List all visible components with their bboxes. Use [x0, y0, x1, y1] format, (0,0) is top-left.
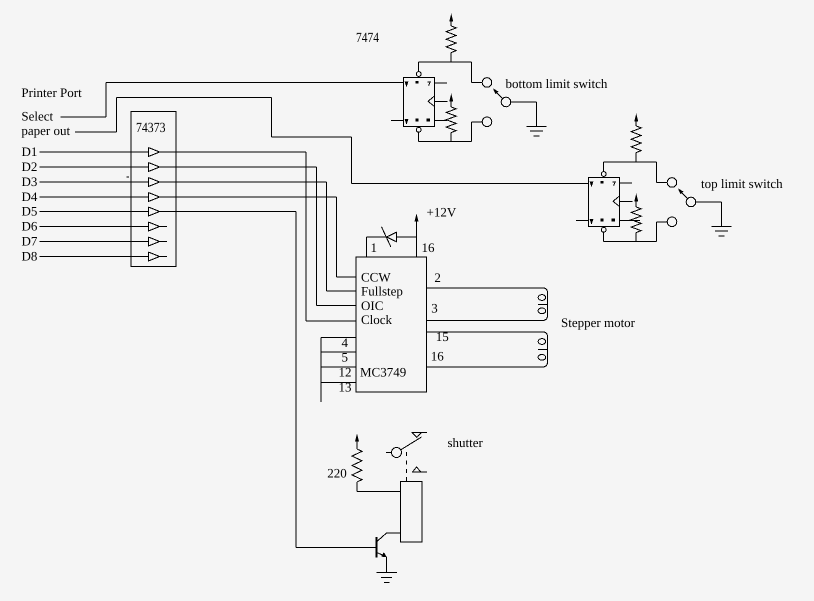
svg-text:shutter: shutter — [448, 435, 484, 450]
svg-text:74373: 74373 — [136, 121, 166, 136]
svg-text:16: 16 — [431, 349, 445, 364]
svg-text:MC3749: MC3749 — [360, 365, 406, 380]
svg-text:+12V: +12V — [427, 205, 457, 220]
svg-text:1: 1 — [371, 240, 378, 255]
svg-text:Stepper motor: Stepper motor — [561, 315, 636, 330]
svg-text:15: 15 — [436, 329, 449, 344]
svg-text:D2: D2 — [22, 159, 38, 174]
svg-text:Select: Select — [21, 109, 53, 124]
svg-text:Fullstep: Fullstep — [361, 284, 403, 299]
svg-text:D5: D5 — [22, 204, 38, 219]
svg-text:D6: D6 — [22, 219, 38, 234]
svg-text:2: 2 — [434, 270, 441, 285]
svg-text:D3: D3 — [22, 174, 38, 189]
svg-text:CCW: CCW — [361, 270, 391, 285]
svg-text:7474: 7474 — [356, 31, 379, 46]
svg-text:bottom limit switch: bottom limit switch — [506, 76, 608, 91]
svg-text:220: 220 — [327, 466, 347, 481]
svg-text:4: 4 — [342, 335, 349, 350]
svg-text:Clock: Clock — [361, 312, 393, 327]
svg-text:D7: D7 — [22, 234, 38, 249]
svg-text:5: 5 — [342, 350, 349, 365]
svg-text:OIC: OIC — [361, 298, 383, 313]
svg-text:3: 3 — [431, 301, 438, 316]
svg-text:16: 16 — [422, 240, 436, 255]
svg-text:Printer Port: Printer Port — [21, 85, 82, 100]
svg-text:top limit switch: top limit switch — [701, 176, 783, 191]
svg-text:D8: D8 — [22, 249, 38, 264]
svg-text:12: 12 — [339, 365, 352, 380]
svg-text:D4: D4 — [22, 189, 38, 204]
svg-text:D1: D1 — [22, 144, 38, 159]
svg-text:13: 13 — [339, 380, 352, 395]
svg-text:paper out: paper out — [21, 123, 70, 138]
